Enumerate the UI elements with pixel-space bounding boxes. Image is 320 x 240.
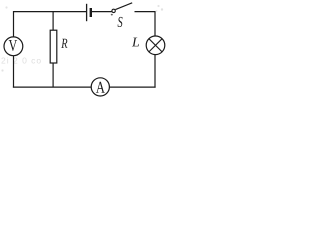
voltmeter letter V — [9, 40, 17, 51]
battery B1 short thick plate (-) — [90, 8, 92, 17]
wire: resistor branch lower — [52, 63, 54, 87]
label S — [118, 17, 123, 27]
wire: left vertical upper — [13, 11, 15, 37]
resistor R box — [50, 30, 57, 63]
wire: battery to switch — [92, 11, 112, 13]
background — [0, 0, 168, 99]
wire: switch to top right corner — [135, 11, 156, 13]
ammeter A circle — [91, 78, 109, 96]
voltmeter V circle — [4, 37, 23, 56]
battery B1 long plate (+) — [86, 4, 88, 21]
label R — [61, 39, 67, 48]
wire: top left segment — [14, 11, 87, 13]
wire: right vertical upper — [154, 12, 156, 37]
lamp L cross diagonal 1 — [149, 39, 162, 52]
switch S pivot circle — [112, 9, 115, 12]
label L — [132, 38, 139, 47]
svg-text:2i 2 0 co: 2i 2 0 co — [1, 56, 42, 66]
speck below switch pivot — [111, 14, 113, 16]
wire: bottom right segment — [109, 86, 155, 88]
wire: left vertical lower — [13, 56, 15, 88]
ammeter letter A — [96, 82, 105, 93]
lamp L cross diagonal 2 — [149, 39, 162, 52]
switch S blade (open) — [115, 3, 132, 10]
wire: right vertical lower — [154, 54, 156, 87]
wire: resistor branch upper — [52, 12, 54, 31]
lamp L circle — [146, 36, 165, 55]
wire: bottom left segment — [13, 86, 92, 88]
